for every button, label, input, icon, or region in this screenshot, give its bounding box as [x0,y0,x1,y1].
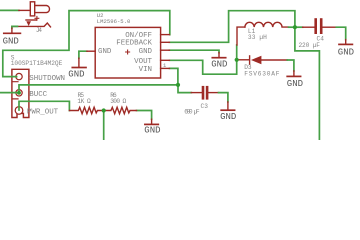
junction node R5/R6 [102,108,106,112]
wire feedback net [169,11,295,43]
svg-text:PWR_OUT: PWR_OUT [27,108,59,116]
svg-text:300 Ω: 300 Ω [110,98,126,105]
svg-text:FSV630AF: FSV630AF [244,70,280,77]
wire PWR_OUT to R5 [19,101,69,110]
svg-text:BUCC: BUCC [29,91,47,99]
svg-text:33 µH: 33 µH [248,34,267,41]
wire shutdown net: switch pin to ON/OFF [3,11,170,77]
capacitor C3 [191,92,218,94]
svg-text:VOUT: VOUT [134,58,152,66]
svg-text:100SP1T1B4M2QE: 100SP1T1B4M2QE [11,60,63,67]
svg-text:GND: GND [220,112,236,122]
ground GND3 (U2 right) [212,53,225,58]
wire R6 to ground [137,111,152,120]
wire junction R5/R6 down to bottom edge [103,111,105,141]
svg-text:220 µF: 220 µF [299,42,321,49]
IC U2 box [95,27,160,78]
U2 pin stubs [87,35,169,69]
svg-text:GND: GND [211,59,227,69]
ground GND7 (C3) [221,102,234,110]
wire output node down and right [295,27,320,140]
wire BVCC from left edge [0,92,18,94]
wire output node to C4 [295,26,303,28]
ground GND5 (D3) [287,71,300,77]
resistor R6 [104,107,137,113]
svg-text:GND: GND [139,48,153,56]
junction node BVCC pin [17,91,21,95]
connector J4 [12,2,51,27]
svg-text:FEEDBACK: FEEDBACK [116,40,152,48]
svg-text:J4: J4 [36,27,42,34]
switch S body [12,69,29,117]
wire U2 right GND pin to ground [169,50,219,52]
svg-text:GND: GND [287,79,303,89]
switch pin circle PWR_OUT [15,107,23,115]
svg-text:VIN: VIN [139,66,152,74]
switch S body [13,82,18,99]
wire switch node up to inductor [236,45,238,60]
svg-text:GND: GND [3,37,19,47]
wire C3 to ground [219,93,228,102]
switch pin circle SHUTDOWN [16,73,22,79]
svg-text:680 µF: 680 µF [184,109,200,116]
wire VIN to junction [170,68,178,85]
svg-text:LM2596-5.0: LM2596-5.0 [97,18,131,25]
svg-text:C3: C3 [201,103,209,110]
junction node VIN [176,83,180,87]
svg-text:GND: GND [338,47,354,57]
junction node output [293,25,297,29]
ground GND1 (J4) [4,28,21,33]
wire C4 to ground [336,27,345,39]
wire VOUT detour to switch node [170,60,237,74]
ground GND2 (U2 left) [72,58,86,67]
inductor L1 [237,22,289,45]
svg-text:GND: GND [144,125,160,135]
wire U2 left GND pin to ground [79,51,87,58]
wire J4 tip from left edge [0,9,19,11]
wire BVCC up and to VIN junction [19,85,178,90]
ground GND4 (C4) [339,40,352,45]
wire inductor to output node [289,26,295,28]
resistor R5 [69,107,103,113]
wire D3 anode to ground [287,60,294,71]
wire J4 sleeve to ground [12,26,18,28]
capacitor C4 [303,26,337,28]
switch pin circle BVCC [16,90,22,96]
ground GND6 (R6) [145,119,158,124]
diode D3 [238,56,287,64]
svg-text:GND: GND [98,48,112,56]
svg-text:1K Ω: 1K Ω [77,98,91,105]
junction node switch node [235,58,239,62]
svg-text:SHUTDOWN: SHUTDOWN [29,75,65,83]
wire junction down to C3 [178,85,191,93]
svg-text:GND: GND [68,70,84,80]
